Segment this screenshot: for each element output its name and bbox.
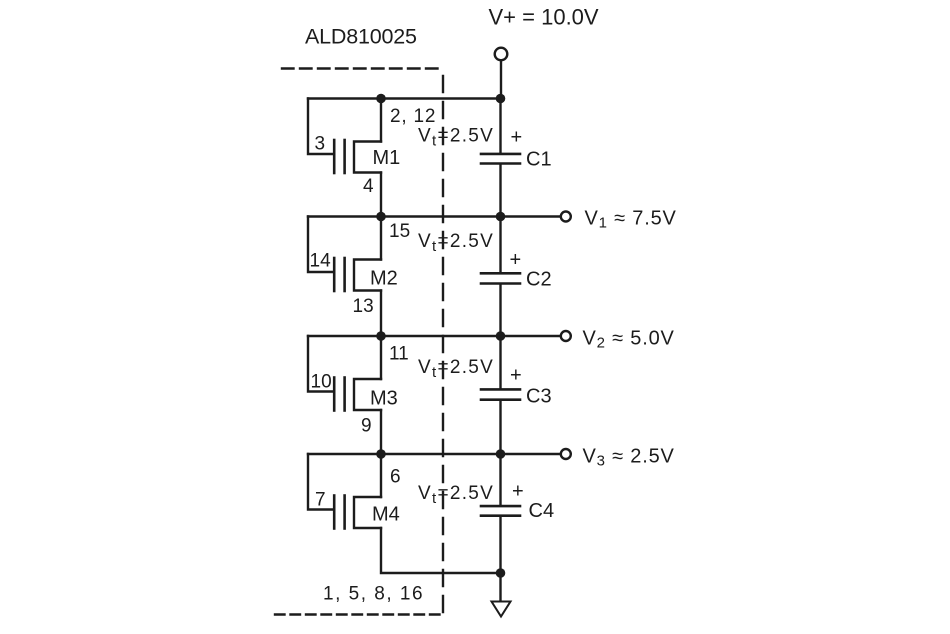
IC package boundary (dashed) right edge bbox=[442, 76, 444, 615]
svg-text:6: 6 bbox=[390, 467, 401, 488]
capacitor C1 bbox=[481, 99, 520, 217]
node: V2 / M2-M3 junction bbox=[376, 331, 386, 341]
svg-text:C1: C1 bbox=[526, 149, 552, 171]
svg-text:+: + bbox=[511, 127, 523, 149]
capacitor C3 bbox=[481, 336, 520, 454]
M2 floating gate bar bbox=[343, 258, 346, 291]
svg-text:Vt=2.5V: Vt=2.5V bbox=[418, 126, 494, 150]
capacitor C2 bbox=[481, 217, 520, 337]
node: V3 / C3-C4 junction bbox=[496, 449, 506, 459]
wire: M3 drain lead bbox=[380, 336, 382, 379]
svg-text:14: 14 bbox=[310, 251, 332, 272]
M2 channel bracket bbox=[354, 260, 381, 291]
wire: bottom ground rail bbox=[381, 528, 501, 573]
wire: top rail (V+ net) bbox=[308, 97, 501, 99]
C2 bottom plate bbox=[481, 282, 520, 285]
node: V1 / C1-C2 junction bbox=[496, 212, 506, 222]
node: V1 / M1-M2 junction bbox=[376, 212, 386, 222]
M3 gate bar bbox=[333, 378, 336, 411]
C3 top plate bbox=[481, 388, 520, 391]
V+ input terminal bbox=[495, 48, 508, 61]
wire: M3 gate-drain loop bbox=[308, 336, 333, 392]
C1 bottom plate bbox=[481, 162, 520, 165]
svg-text:15: 15 bbox=[389, 221, 410, 242]
ground bbox=[492, 602, 511, 617]
transistor M2 bbox=[308, 217, 381, 337]
C2 top plate bbox=[481, 272, 520, 275]
svg-text:13: 13 bbox=[353, 296, 374, 317]
svg-text:3: 3 bbox=[315, 134, 326, 155]
svg-text:Vt=2.5V: Vt=2.5V bbox=[418, 483, 494, 507]
transistor M3 bbox=[308, 336, 381, 454]
svg-text:V2 ≈ 5.0V: V2 ≈ 5.0V bbox=[583, 328, 675, 352]
wire: V1 rail bbox=[308, 215, 561, 217]
M1 floating gate bar bbox=[343, 140, 346, 173]
svg-text:11: 11 bbox=[389, 344, 409, 365]
wire: M2 drain lead bbox=[380, 217, 382, 260]
svg-text:+: + bbox=[510, 249, 522, 271]
wire: M4 gate-drain loop bbox=[308, 454, 333, 510]
svg-text:+: + bbox=[512, 481, 524, 503]
svg-text:M3: M3 bbox=[370, 388, 398, 410]
wire: C3 bottom lead bbox=[499, 401, 501, 454]
wire: M2 source lead bbox=[380, 291, 382, 337]
wire: V3 rail bbox=[308, 453, 561, 455]
svg-text:C4: C4 bbox=[529, 500, 555, 522]
node: V3 / M3-M4 junction bbox=[376, 449, 386, 459]
wire: M3 source lead bbox=[380, 410, 382, 454]
svg-text:10: 10 bbox=[311, 372, 332, 393]
svg-text:1, 5, 8, 16: 1, 5, 8, 16 bbox=[323, 584, 424, 605]
svg-text:+: + bbox=[510, 365, 522, 387]
wire: C4 bottom lead bbox=[499, 517, 501, 573]
M2 gate bar bbox=[333, 258, 336, 291]
wire: C1 top lead bbox=[499, 99, 501, 153]
wire: C3 top lead bbox=[499, 336, 501, 388]
node: V2 / C2-C3 junction bbox=[496, 331, 506, 341]
M3 floating gate bar bbox=[343, 378, 346, 411]
wire: M1 gate-drain loop bbox=[308, 99, 333, 155]
svg-text:V1 ≈ 7.5V: V1 ≈ 7.5V bbox=[585, 208, 677, 232]
svg-text:9: 9 bbox=[361, 416, 372, 437]
C4 bottom plate bbox=[481, 514, 520, 517]
M1 gate bar bbox=[333, 140, 336, 173]
svg-text:C2: C2 bbox=[526, 269, 552, 291]
C3 bottom plate bbox=[481, 398, 520, 401]
svg-text:V3 ≈ 2.5V: V3 ≈ 2.5V bbox=[583, 446, 675, 470]
V1 output terminal bbox=[561, 212, 571, 222]
svg-text:7: 7 bbox=[315, 490, 326, 511]
node: V+ / M1 drain junction bbox=[376, 94, 386, 104]
wire: V2 rail bbox=[308, 335, 561, 337]
V3 output terminal bbox=[561, 449, 571, 459]
wire: M1 source lead bbox=[380, 173, 382, 217]
svg-text:C3: C3 bbox=[526, 386, 552, 408]
M4 gate bar bbox=[333, 496, 336, 529]
svg-text:V+ = 10.0V: V+ = 10.0V bbox=[489, 5, 599, 30]
C4 top plate bbox=[481, 505, 520, 508]
transistor M1 bbox=[308, 99, 381, 217]
wire: C1 bottom lead bbox=[499, 165, 501, 217]
wire: C2 bottom lead bbox=[499, 285, 501, 336]
M3 channel bracket bbox=[354, 379, 381, 410]
M4 floating gate bar bbox=[343, 496, 346, 529]
svg-text:2, 12: 2, 12 bbox=[390, 106, 436, 127]
svg-text:Vt=2.5V: Vt=2.5V bbox=[418, 357, 494, 381]
C1 top plate bbox=[481, 153, 520, 156]
wire: M2 gate-drain loop bbox=[308, 217, 333, 273]
wire: M4 drain lead bbox=[380, 454, 382, 497]
node: ground junction bbox=[496, 568, 506, 578]
M4 channel bracket bbox=[354, 497, 381, 528]
wire: V+ terminal to top rail bbox=[500, 61, 502, 99]
transistor M4 bbox=[308, 454, 381, 529]
node: V+ / C1 junction bbox=[496, 94, 506, 104]
capacitor C4 bbox=[481, 454, 520, 573]
wire: ground stub bbox=[499, 573, 501, 601]
svg-text:4: 4 bbox=[363, 176, 374, 197]
svg-text:Vt=2.5V: Vt=2.5V bbox=[418, 231, 494, 255]
wire: M1 drain lead bbox=[380, 99, 382, 142]
IC package boundary (dashed) bottom edge bbox=[275, 613, 443, 615]
wire: C4 top lead bbox=[499, 454, 501, 505]
svg-text:M4: M4 bbox=[372, 504, 400, 526]
svg-text:M2: M2 bbox=[370, 268, 398, 290]
wire: C2 top lead bbox=[499, 217, 501, 273]
svg-text:M1: M1 bbox=[373, 147, 401, 169]
svg-text:ALD810025: ALD810025 bbox=[305, 25, 417, 49]
IC package boundary (dashed) top edge bbox=[282, 67, 443, 69]
M1 channel bracket bbox=[354, 142, 381, 173]
V2 output terminal bbox=[561, 331, 571, 341]
